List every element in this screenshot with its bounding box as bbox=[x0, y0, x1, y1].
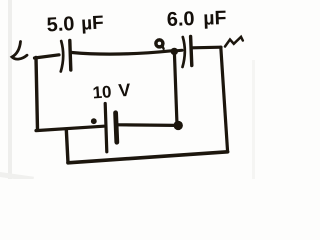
wire bottom bbox=[68, 152, 228, 163]
battery B1 short plate bbox=[116, 113, 117, 142]
svg-text:6.0: 6.0 bbox=[166, 8, 195, 31]
check mark left bbox=[12, 42, 27, 60]
node a dot bbox=[171, 48, 178, 55]
label C1 value bbox=[46, 12, 104, 37]
check mark right bbox=[225, 37, 243, 47]
wire middle horizontal bbox=[36, 126, 104, 130]
wire node a vertical bbox=[174, 53, 177, 123]
capacitor C1 5.0uF right plate bbox=[70, 41, 71, 71]
scan streak right side bbox=[252, 60, 255, 179]
scan streak left edge bbox=[8, 0, 12, 179]
svg-text:V: V bbox=[118, 80, 131, 101]
wire top middle segment bbox=[72, 51, 172, 54]
wire node a to C2 stub bbox=[174, 49, 182, 53]
svg-text:10: 10 bbox=[92, 82, 112, 102]
svg-text:µF: µF bbox=[81, 13, 105, 35]
wire top-left segment bbox=[35, 55, 60, 58]
node a label tail bbox=[162, 46, 163, 49]
wire right vertical bbox=[221, 47, 228, 152]
battery B1 long plate bbox=[105, 104, 107, 152]
label battery value bbox=[92, 80, 131, 103]
paper background bbox=[0, 0, 279, 179]
wire top-right segment bbox=[193, 46, 222, 50]
node a label ring bbox=[156, 40, 163, 47]
svg-text:µF: µF bbox=[203, 7, 227, 30]
battery polarity dot bbox=[91, 118, 97, 124]
capacitor C1 5.0uF left plate bbox=[61, 41, 63, 72]
wire battery to junction bbox=[119, 123, 176, 127]
scan smudge bottom left bbox=[0, 171, 34, 182]
capacitor C2 6.0uF right plate bbox=[191, 37, 192, 66]
wire bottom-left riser bbox=[66, 129, 68, 163]
svg-text:5.0: 5.0 bbox=[46, 13, 75, 36]
junction dot bbox=[174, 121, 183, 130]
label C2 value bbox=[166, 7, 226, 31]
wire left vertical bbox=[36, 58, 38, 131]
capacitor C2 6.0uF left plate bbox=[183, 37, 185, 67]
